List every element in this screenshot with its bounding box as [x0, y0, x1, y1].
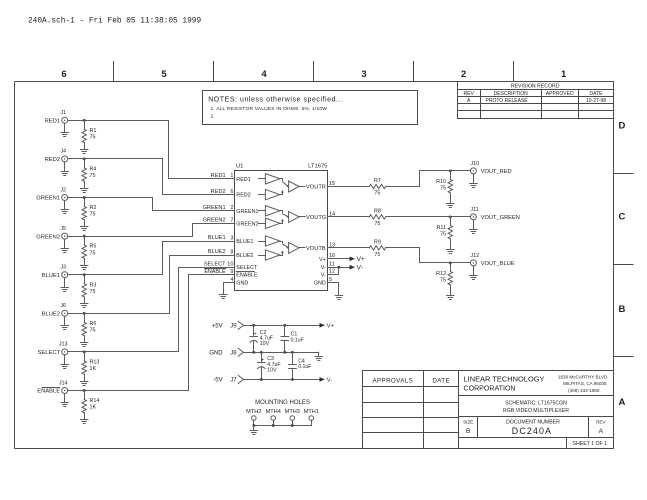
- connector J8 GND: [209, 348, 243, 356]
- ground for J1: [61, 123, 68, 136]
- svg-text:R14: R14: [90, 398, 100, 404]
- svg-text:NOTES: unless otherwise specif: NOTES: unless otherwise specified...: [208, 97, 343, 104]
- svg-text:GND: GND: [236, 281, 248, 287]
- svg-text:10V: 10V: [260, 341, 270, 347]
- svg-text:DATE: DATE: [590, 91, 604, 97]
- svg-text:2: 2: [230, 205, 233, 211]
- ground for R12: [447, 296, 454, 300]
- U1 pin 12 number label: [329, 269, 335, 275]
- svg-text:V+: V+: [357, 256, 365, 263]
- svg-text:R5: R5: [90, 244, 97, 250]
- svg-text:V-: V-: [357, 265, 363, 272]
- U1 right side pin names V+ V- V- GND: [314, 257, 326, 287]
- resistor R13: [82, 352, 99, 381]
- company name LINEAR TECHNOLOGY CORPORATION: [464, 375, 545, 393]
- document number cell: [506, 420, 560, 437]
- svg-text:75: 75: [440, 232, 446, 238]
- connector J7 -5V: [213, 375, 243, 383]
- connector J10 VOUT_RED: [470, 161, 511, 175]
- notes box: [203, 91, 418, 125]
- svg-text:10: 10: [227, 262, 233, 268]
- wire BLUE1 net: [68, 242, 235, 277]
- svg-text:V-: V-: [327, 378, 333, 384]
- svg-text:RED1: RED1: [211, 173, 226, 179]
- svg-text:R3: R3: [90, 282, 97, 288]
- svg-text:MTH3: MTH3: [285, 409, 300, 415]
- svg-text:J7: J7: [230, 378, 237, 384]
- svg-text:J4: J4: [60, 149, 66, 155]
- resistor R8 75: [369, 209, 385, 227]
- svg-text:REV: REV: [464, 91, 475, 97]
- svg-text:1: 1: [561, 69, 567, 80]
- wire U1 output to R9: [327, 247, 369, 249]
- resistor R9 75: [369, 240, 385, 258]
- svg-text:GREEN2: GREEN2: [236, 221, 258, 227]
- svg-text:VOUTG: VOUTG: [306, 215, 326, 221]
- connector J11 VOUT_GREEN: [470, 207, 520, 221]
- rev cell: [596, 420, 606, 435]
- resistor R2: [82, 198, 96, 227]
- svg-text:VOUTB: VOUTB: [306, 246, 326, 252]
- ground for mounting holes: [250, 431, 257, 435]
- top ruler zone numbers: [61, 69, 567, 80]
- svg-text:MTH2: MTH2: [246, 409, 261, 415]
- svg-text:75: 75: [440, 278, 446, 284]
- svg-text:1. ALL RESISTOR VALUES IN OHMS: 1. ALL RESISTOR VALUES IN OHMS, 5%, 1/10…: [211, 106, 328, 112]
- ground at end of GND rail: [315, 357, 322, 361]
- ground for R10: [447, 204, 454, 208]
- svg-text:LT1675: LT1675: [308, 163, 327, 169]
- svg-text:C: C: [619, 212, 626, 223]
- wire +5V rail to V+ flag: [243, 323, 334, 330]
- U1 pin 13 number label: [329, 242, 335, 248]
- resistor R14: [82, 391, 99, 420]
- U1 pin 10 SELECT stub and labels: [204, 261, 258, 271]
- svg-text:REV: REV: [596, 420, 606, 425]
- svg-text:R2: R2: [90, 205, 97, 211]
- svg-text:R8: R8: [374, 209, 381, 215]
- ground for R6: [81, 343, 88, 347]
- ground for R11: [447, 250, 454, 254]
- size cell: [463, 420, 473, 435]
- svg-text:V-: V-: [321, 272, 326, 278]
- ground for R2: [81, 227, 88, 231]
- wire R7 to J10: [386, 169, 471, 186]
- svg-text:R9: R9: [374, 240, 381, 246]
- ground for J11: [470, 220, 477, 234]
- svg-text:B: B: [466, 428, 471, 435]
- svg-text:75: 75: [90, 212, 96, 218]
- U1 internal buffers and mux for VOUTR: [259, 174, 326, 200]
- svg-text:MILPITAS, CA 95035: MILPITAS, CA 95035: [563, 381, 607, 386]
- svg-text:1: 1: [230, 173, 233, 179]
- svg-text:J2: J2: [60, 187, 66, 193]
- svg-text:10V: 10V: [267, 368, 277, 374]
- svg-text:2: 2: [461, 69, 466, 80]
- wire SELECT net: [68, 268, 235, 354]
- connector J12 VOUT_BLUE: [470, 253, 514, 267]
- U1 pin 2 GREEN1 stub and labels: [203, 205, 259, 215]
- svg-text:1630 McCARTHY BLVD.: 1630 McCARTHY BLVD.: [558, 375, 609, 380]
- svg-text:J11: J11: [470, 207, 478, 213]
- svg-text:75: 75: [90, 135, 96, 141]
- svg-text:GREEN1: GREEN1: [36, 196, 60, 202]
- U1 pins 11/12 V- tie wire: [327, 265, 362, 275]
- svg-text:RED2: RED2: [236, 193, 250, 199]
- ground for J12: [470, 266, 477, 280]
- ground for R14: [81, 420, 88, 424]
- svg-text:R1: R1: [90, 128, 97, 134]
- svg-text:J12: J12: [470, 253, 479, 259]
- revision row A PROTO RELEASE: [467, 98, 606, 104]
- U1 pin 4 GND wire: [224, 283, 235, 295]
- ground for R3: [81, 304, 88, 308]
- svg-text:10-27-98: 10-27-98: [586, 98, 606, 104]
- connector J13 SELECT: [38, 342, 68, 356]
- svg-text:GREEN2: GREEN2: [36, 234, 60, 240]
- svg-text:J1: J1: [60, 110, 66, 116]
- svg-text:APPROVED: APPROVED: [546, 91, 574, 97]
- U1 pin 7 GREEN2 stub and labels: [203, 218, 259, 228]
- U1 pin 15 number label: [329, 181, 335, 187]
- mounting hole MTH4: [266, 409, 281, 426]
- svg-text:RED1: RED1: [236, 177, 250, 183]
- svg-text:GREEN2: GREEN2: [203, 218, 226, 224]
- svg-text:240A.sch-1 - Fri Feb 05 11:38:: 240A.sch-1 - Fri Feb 05 11:38:05 1999: [28, 18, 201, 26]
- wire mounting hole bus: [252, 424, 311, 430]
- ground for J10: [470, 174, 477, 188]
- svg-text:75: 75: [90, 173, 96, 179]
- ground for J4: [61, 162, 68, 176]
- svg-text:BLUE2: BLUE2: [236, 253, 253, 259]
- resistor R4: [82, 159, 96, 188]
- svg-text:0.1uF: 0.1uF: [298, 364, 311, 370]
- ground for J13: [61, 355, 68, 369]
- svg-text:MTH1: MTH1: [304, 409, 319, 415]
- U1 pin 16 number label: [329, 253, 335, 259]
- svg-text:DESCRIPTION: DESCRIPTION: [494, 91, 529, 97]
- op-amp U1 LT1675 package body: [235, 163, 328, 290]
- svg-text:CORPORATION: CORPORATION: [464, 384, 516, 393]
- svg-text:SIZE: SIZE: [463, 420, 473, 425]
- svg-text:VOUT_RED: VOUT_RED: [481, 169, 512, 175]
- svg-text:+: +: [254, 331, 257, 337]
- svg-text:J6: J6: [60, 303, 66, 309]
- svg-text:DC240A: DC240A: [512, 426, 552, 436]
- svg-text:PROTO RELEASE: PROTO RELEASE: [486, 98, 529, 104]
- svg-text:J13: J13: [59, 342, 68, 348]
- wire GREEN1 net: [68, 196, 235, 210]
- resistor R1: [82, 120, 96, 149]
- svg-text:J3: J3: [60, 265, 66, 271]
- schematic title text: [503, 401, 569, 414]
- resistor R7 75: [369, 178, 385, 196]
- wire -5V rail to V- flag: [243, 377, 332, 384]
- svg-text:5: 5: [161, 69, 167, 80]
- capacitor C2 4.7uF 10V polarized: [250, 325, 273, 352]
- resistor R11 75 shunt: [437, 217, 453, 250]
- wire ENABLE net: [68, 275, 235, 392]
- svg-text:75: 75: [90, 289, 96, 295]
- svg-text:DATE: DATE: [432, 378, 450, 385]
- ground at U1 pin 4: [220, 295, 227, 299]
- svg-text:SCHEMATIC: LT1675CGN: SCHEMATIC: LT1675CGN: [505, 401, 567, 407]
- svg-text:REVISION RECORD: REVISION RECORD: [511, 83, 560, 89]
- svg-text:GND: GND: [209, 351, 223, 357]
- company address: [558, 375, 609, 393]
- svg-text:8: 8: [230, 249, 233, 255]
- svg-text:6: 6: [230, 189, 233, 195]
- svg-text:SELECT: SELECT: [38, 350, 61, 356]
- svg-text:3: 3: [230, 235, 233, 241]
- svg-text:VOUT_GREEN: VOUT_GREEN: [481, 215, 520, 221]
- svg-text:7: 7: [230, 218, 233, 224]
- svg-text:VOUTR: VOUTR: [306, 185, 326, 191]
- revision record titles: [464, 83, 604, 97]
- svg-text:BLUE2: BLUE2: [208, 249, 226, 255]
- connector J6 BLUE2: [42, 303, 68, 317]
- svg-text:SELECT: SELECT: [204, 261, 226, 267]
- connector J2 GREEN1: [36, 187, 67, 201]
- connector J3 BLUE1: [42, 265, 68, 279]
- svg-text:V-: V-: [321, 265, 326, 271]
- svg-text:6: 6: [61, 69, 66, 80]
- svg-text:BLUE2: BLUE2: [42, 312, 60, 318]
- svg-text:RED2: RED2: [211, 189, 226, 195]
- mounting holes title: [255, 400, 310, 406]
- svg-text:DOCUMENT NUMBER: DOCUMENT NUMBER: [506, 420, 560, 426]
- svg-text:RED2: RED2: [45, 157, 60, 163]
- svg-text:BLUE1: BLUE1: [208, 235, 226, 241]
- wire U1 output to R8: [327, 216, 369, 218]
- mounting hole MTH1: [304, 409, 319, 426]
- svg-text:RGB VIDEO MULTIPLEXER: RGB VIDEO MULTIPLEXER: [503, 408, 569, 414]
- revision record table: [458, 82, 614, 119]
- U1 pin 5 number label: [329, 277, 332, 283]
- top ruler ticks: [114, 61, 514, 82]
- svg-text:GREEN1: GREEN1: [203, 205, 226, 211]
- svg-text:VOUT_BLUE: VOUT_BLUE: [481, 261, 515, 267]
- svg-text:MTH4: MTH4: [266, 409, 281, 415]
- svg-text:R4: R4: [90, 167, 97, 173]
- wire R9 to J12: [386, 248, 471, 265]
- ground for R13: [81, 382, 88, 386]
- svg-text:0.1uF: 0.1uF: [291, 337, 304, 343]
- connector J1 RED1: [45, 110, 68, 124]
- ground for R4: [81, 189, 88, 193]
- svg-text:(408) 432-1900: (408) 432-1900: [568, 388, 600, 393]
- connector J5 GREEN2: [36, 226, 67, 240]
- svg-text:J9: J9: [230, 324, 237, 330]
- svg-text:R13: R13: [90, 360, 100, 366]
- U1 internal buffers and mux for VOUTB: [259, 236, 326, 260]
- svg-text:J10: J10: [470, 161, 479, 167]
- ground for J6: [61, 316, 68, 329]
- svg-text:75: 75: [90, 250, 96, 256]
- ground for R1: [81, 150, 88, 154]
- svg-text:-5V: -5V: [213, 378, 222, 384]
- resistor R12 75 shunt: [436, 263, 452, 296]
- svg-text:D: D: [619, 121, 626, 132]
- svg-text:BLUE1: BLUE1: [236, 239, 253, 245]
- svg-text:75: 75: [374, 221, 380, 227]
- svg-text:V+: V+: [327, 324, 335, 330]
- svg-text:ENABLE: ENABLE: [37, 389, 60, 395]
- resistor R3: [82, 275, 96, 304]
- ground for J2: [61, 201, 68, 214]
- svg-text:3: 3: [361, 69, 366, 80]
- svg-text:SHEET 1 OF 1: SHEET 1 OF 1: [573, 441, 608, 447]
- svg-text:+: +: [261, 358, 264, 364]
- wire GREEN2 net: [68, 224, 235, 238]
- U1 pin 4 GND stub and labels: [226, 277, 249, 287]
- wire R8 to J11: [386, 215, 471, 218]
- U1 internal buffers and mux for VOUTG: [259, 206, 327, 229]
- ground at U1 pin 5: [335, 296, 342, 300]
- U1 pin 14 number label: [329, 211, 335, 217]
- wire GND rail: [243, 351, 318, 357]
- U1 pin 5 GND wire: [327, 283, 338, 296]
- right ruler zone letters: [619, 121, 626, 409]
- title block outline: [363, 371, 614, 449]
- title block approvals/date headers: [372, 378, 450, 385]
- connector J4 RED2: [45, 149, 68, 163]
- svg-text:U1: U1: [236, 163, 243, 169]
- right ruler ticks: [614, 174, 634, 357]
- U1 pin 16 V+ wire and power flag: [327, 256, 365, 263]
- svg-text:R12: R12: [436, 271, 446, 277]
- capacitor C1 0.1uF: [281, 325, 304, 352]
- svg-text:R11: R11: [437, 225, 447, 231]
- svg-text:1K: 1K: [90, 366, 97, 372]
- resistor R6: [82, 313, 96, 342]
- svg-text:ENABLE: ENABLE: [236, 272, 258, 278]
- svg-text:12: 12: [329, 269, 335, 275]
- svg-text:BLUE1: BLUE1: [42, 273, 60, 279]
- svg-text:SELECT: SELECT: [236, 265, 258, 271]
- svg-text:4: 4: [261, 69, 267, 80]
- svg-text:MOUNTING HOLES: MOUNTING HOLES: [255, 400, 310, 406]
- svg-text:APPROVALS: APPROVALS: [372, 378, 413, 385]
- connector J9 +5V: [212, 321, 244, 329]
- svg-text:J14: J14: [59, 380, 68, 386]
- svg-text:RED1: RED1: [45, 119, 60, 125]
- U1 pin 6 RED2 stub and labels: [211, 189, 251, 199]
- svg-text:2.: 2.: [211, 114, 215, 120]
- wire RED1 net: [68, 119, 235, 179]
- U1 pin 8 BLUE2 stub and labels: [208, 249, 254, 259]
- ground for J14: [61, 394, 68, 407]
- svg-text:A: A: [599, 428, 604, 435]
- svg-text:75: 75: [374, 252, 380, 258]
- border frame: [14, 82, 16, 449]
- svg-text:75: 75: [440, 186, 446, 192]
- capacitor C3 4.7uF 10V polarized: [258, 352, 281, 379]
- notes text: [208, 97, 343, 120]
- U1 pin 1 RED1 stub and labels: [211, 173, 251, 183]
- svg-text:A: A: [619, 397, 626, 408]
- capacitor C4 0.1uF: [289, 352, 312, 379]
- U1 pin 11 number label: [329, 262, 335, 268]
- svg-text:V+: V+: [319, 257, 326, 263]
- svg-text:75: 75: [90, 328, 96, 334]
- svg-text:75: 75: [374, 191, 380, 197]
- svg-text:1K: 1K: [90, 405, 97, 411]
- svg-text:R6: R6: [90, 321, 97, 327]
- mounting hole MTH3: [285, 409, 300, 426]
- ground for J3: [61, 278, 68, 292]
- svg-text:B: B: [619, 304, 626, 315]
- wire BLUE2 net: [68, 256, 235, 315]
- svg-text:R7: R7: [374, 178, 381, 184]
- U1 pin 9 ENABLE stub and labels: [204, 269, 258, 279]
- svg-text:LINEAR TECHNOLOGY: LINEAR TECHNOLOGY: [464, 375, 545, 384]
- svg-text:R10: R10: [436, 179, 446, 185]
- sheet cell: [573, 441, 608, 447]
- resistor R10 75 shunt: [436, 171, 452, 204]
- svg-text:J5: J5: [60, 226, 66, 232]
- svg-text:J8: J8: [230, 351, 237, 357]
- wire RED2 net: [68, 157, 235, 194]
- U1 pin 3 BLUE1 stub and labels: [208, 235, 254, 245]
- svg-text:+5V: +5V: [212, 324, 223, 330]
- ground for J5: [61, 239, 68, 252]
- ground for R5: [81, 266, 88, 270]
- svg-text:GREEN1: GREEN1: [236, 209, 258, 215]
- mounting hole MTH2: [246, 409, 261, 426]
- connector J14 ENABLE: [37, 380, 67, 394]
- svg-text:9: 9: [230, 269, 233, 275]
- svg-text:ENABLE: ENABLE: [204, 269, 226, 275]
- svg-text:11: 11: [329, 262, 335, 268]
- svg-text:GND: GND: [314, 281, 326, 287]
- resistor R5: [82, 236, 96, 265]
- wire U1 output to R7: [327, 186, 369, 188]
